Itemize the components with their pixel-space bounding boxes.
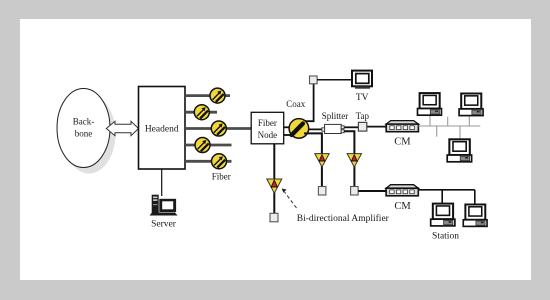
svg-text:CM: CM xyxy=(394,201,411,212)
wire station drop 2 xyxy=(474,190,476,204)
double arrow backbone-headend xyxy=(106,121,138,135)
wire station drop 1 xyxy=(441,190,443,203)
wire square2-CM2 xyxy=(358,190,386,192)
bus stub 5 xyxy=(468,116,470,126)
svg-text:Station: Station xyxy=(432,231,459,241)
optical transceiver 5 xyxy=(212,154,227,169)
bus stub 2 xyxy=(436,126,438,137)
wire CM2-stations xyxy=(418,189,475,191)
computer C xyxy=(447,139,471,161)
server icon xyxy=(150,195,178,216)
wire node-converter lower xyxy=(284,134,294,136)
svg-text:bone: bone xyxy=(75,129,93,139)
svg-text:Bi-directional Amplifier: Bi-directional Amplifier xyxy=(297,213,390,224)
wire node-converter upper xyxy=(284,126,294,128)
bus stub 4 xyxy=(459,126,461,139)
coax converter circle xyxy=(289,119,309,139)
wire fiber 4 xyxy=(185,144,232,147)
wire fiber 5 xyxy=(185,160,232,163)
wire tap drop xyxy=(344,131,354,186)
svg-text:Tap: Tap xyxy=(356,111,370,121)
svg-text:Back-: Back- xyxy=(73,117,95,127)
cable modem CM1 xyxy=(386,121,418,132)
computer A xyxy=(417,93,441,115)
wire coax main xyxy=(305,128,326,130)
svg-text:TV: TV xyxy=(356,93,369,103)
optical transceiver 4 xyxy=(195,138,210,153)
bi-directional amplifier callout arrow xyxy=(282,188,297,208)
wire fiber 1 xyxy=(185,94,230,97)
svg-text:Fiber: Fiber xyxy=(212,172,231,182)
wire square-tv xyxy=(317,79,352,81)
computer E xyxy=(463,204,487,226)
optical transceiver 2 xyxy=(194,105,209,120)
wire to tv square xyxy=(305,83,314,121)
computer B xyxy=(459,93,483,115)
computer D xyxy=(431,204,455,226)
optical transceiver 3 xyxy=(211,121,226,136)
wire splitter drop xyxy=(304,133,322,186)
svg-text:Node: Node xyxy=(258,130,278,140)
wire headend-server xyxy=(161,169,163,196)
svg-text:Coax: Coax xyxy=(286,99,305,109)
svg-text:Server: Server xyxy=(151,220,177,230)
terminator square 1 xyxy=(318,187,326,196)
amplifier A2 xyxy=(347,154,361,167)
wire fiber 2 xyxy=(185,111,217,114)
backbone cloud xyxy=(57,89,110,168)
amplifier A1 xyxy=(315,154,329,167)
tap square xyxy=(358,122,366,131)
bus stub 3 xyxy=(447,117,449,126)
splitter xyxy=(322,128,325,131)
svg-text:Fiber: Fiber xyxy=(258,118,277,128)
optical transceiver 1 xyxy=(210,88,225,103)
fiber node box xyxy=(251,112,284,144)
terminator square 2 xyxy=(351,187,359,196)
cable modem CM2 xyxy=(386,185,418,196)
tv branch square xyxy=(310,76,318,84)
wire fiber 3 xyxy=(185,127,251,130)
headend box xyxy=(139,87,186,170)
wire ethernet bus xyxy=(418,125,480,127)
svg-text:CM: CM xyxy=(394,136,411,147)
svg-text:Headend: Headend xyxy=(145,125,179,135)
amplifier A3 xyxy=(267,179,282,193)
backbone cloud shadow xyxy=(63,95,116,174)
terminator square 3 xyxy=(270,213,278,222)
bus stub 1 xyxy=(429,115,431,126)
wire fiber node drop xyxy=(273,144,275,214)
tv icon xyxy=(352,71,372,89)
svg-text:Splitter: Splitter xyxy=(322,111,349,121)
